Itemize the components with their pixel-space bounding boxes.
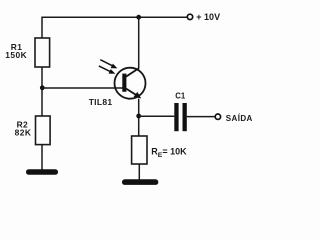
ground under R2 (26, 169, 58, 174)
terminal +10V (187, 14, 192, 19)
phototransistor collector stroke (126, 68, 139, 77)
svg-text:+ 10V: + 10V (196, 12, 220, 22)
resistor RE (132, 136, 147, 164)
wire R1 to R2 (41, 67, 43, 116)
svg-text:82K: 82K (15, 127, 32, 137)
wire base (42, 87, 123, 89)
capacitor C1 plate right (183, 103, 187, 131)
ground under RE (122, 179, 158, 185)
resistor R1 (35, 38, 50, 67)
svg-text:150K: 150K (5, 50, 27, 60)
svg-text:SAÍDA: SAÍDA (226, 114, 253, 123)
phototransistor U1 TIL81: body circle (115, 68, 146, 99)
terminal SAIDA (215, 114, 220, 119)
wire collector (transistor to top rail) (138, 17, 140, 68)
junction base node (40, 85, 45, 90)
phototransistor base bar (122, 74, 126, 92)
wire top rail (R1 top to +10V terminal) (42, 17, 187, 38)
wire RE to ground (138, 164, 140, 180)
resistor R2 (36, 116, 51, 145)
wire emitter node to C1 (139, 115, 175, 117)
junction emitter node (136, 114, 141, 119)
light arrow 2 (99, 66, 111, 72)
phototransistor emitter stroke with arrow (126, 88, 138, 96)
junction collector/top-rail (136, 15, 141, 20)
light arrow 1 (100, 60, 113, 66)
wire R2 to ground (41, 145, 43, 170)
capacitor C1 plate left (174, 103, 178, 131)
svg-text:C1: C1 (175, 91, 186, 100)
svg-text:TIL81: TIL81 (89, 97, 113, 107)
wire emitter down to RE (138, 99, 140, 136)
wire C1 to SAIDA terminal (187, 116, 215, 118)
